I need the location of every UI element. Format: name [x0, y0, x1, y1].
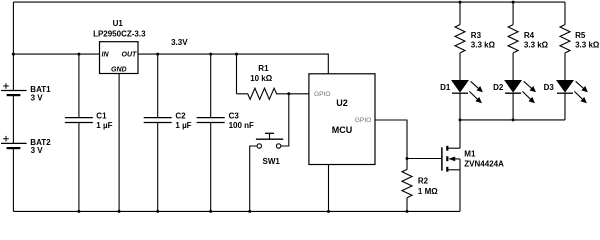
node MCU GND bottom [327, 210, 330, 213]
node R1/SW1/GPIO junction [287, 92, 290, 95]
svg-text:R1: R1 [258, 64, 269, 73]
wire bottom ground rail [13, 210, 460, 212]
wire left supply column [12, 2, 14, 90]
svg-text:3.3 kΩ: 3.3 kΩ [471, 40, 496, 49]
svg-text:R3: R3 [471, 31, 482, 40]
svg-text:3.3 kΩ: 3.3 kΩ [575, 40, 600, 49]
svg-text:SW1: SW1 [263, 157, 281, 166]
node C1 top [77, 53, 80, 56]
svg-text:LP2950CZ-3.3: LP2950CZ-3.3 [93, 30, 146, 39]
svg-text:D3: D3 [544, 83, 555, 92]
capacitor C1 [65, 54, 93, 211]
resistor R3 [455, 2, 465, 80]
node C2 bottom [156, 210, 159, 213]
node C2 top [156, 53, 159, 56]
node U1 GND bottom [118, 210, 121, 213]
svg-text:M1: M1 [464, 150, 476, 159]
wire MCU GPIO to gate node [375, 120, 407, 159]
resistor R5 [560, 2, 570, 80]
resistor R2 [402, 159, 412, 212]
svg-text:GPIO: GPIO [314, 91, 331, 98]
MCU U2 body [309, 74, 375, 165]
svg-text:GND: GND [111, 66, 127, 73]
wire top rail [13, 1, 565, 3]
svg-text:OUT: OUT [122, 51, 138, 58]
svg-text:D2: D2 [493, 83, 504, 92]
svg-text:10 kΩ: 10 kΩ [250, 74, 273, 83]
resistor R1 [237, 54, 289, 99]
svg-text:ZVN4424A: ZVN4424A [464, 159, 504, 168]
wire M1 drain to LED rail [459, 120, 461, 148]
svg-text:C1: C1 [96, 112, 107, 121]
svg-text:GPIO: GPIO [355, 117, 372, 124]
svg-text:U2: U2 [336, 98, 348, 108]
svg-text:3 V: 3 V [31, 146, 44, 155]
wire M1 source to ground [459, 170, 461, 212]
wire LED cathode rail [460, 119, 565, 121]
node battery/IN junction [12, 53, 15, 56]
node gate junction [406, 157, 409, 160]
LED D2 [505, 81, 536, 120]
node R2 bottom [406, 210, 409, 213]
wire U1 OUT 3.3V rail [138, 54, 328, 74]
LED D3 [557, 81, 588, 120]
pushbutton SW1 [250, 133, 284, 211]
node D2 cathode [512, 118, 515, 121]
svg-text:MCU: MCU [332, 125, 353, 135]
node R3 top [459, 1, 462, 4]
capacitor C2 [144, 54, 172, 211]
node SW1 bottom [248, 210, 251, 213]
svg-text:R4: R4 [524, 31, 535, 40]
node C3 top [209, 53, 212, 56]
svg-text:C2: C2 [175, 112, 186, 121]
node D1 cathode [459, 118, 462, 121]
wire between batteries [12, 95, 14, 143]
battery BAT2 [1, 136, 27, 148]
capacitor C3 [197, 54, 225, 211]
svg-text:U1: U1 [113, 19, 124, 28]
wire gate node to M1 gate [407, 158, 441, 160]
svg-text:R5: R5 [575, 31, 586, 40]
node R1 top [235, 53, 238, 56]
svg-text:IN: IN [102, 51, 110, 58]
svg-text:C3: C3 [229, 112, 240, 121]
battery BAT1 [1, 83, 27, 95]
svg-text:1 µF: 1 µF [96, 121, 112, 130]
transistor M1 [442, 146, 460, 172]
svg-text:100 nF: 100 nF [229, 121, 254, 130]
regulator U1 body [100, 42, 139, 74]
svg-text:1 µF: 1 µF [175, 121, 191, 130]
resistor R4 [508, 2, 518, 80]
svg-text:3.3 kΩ: 3.3 kΩ [524, 40, 549, 49]
wire R1 to MCU GPIO [289, 93, 309, 95]
svg-text:3.3V: 3.3V [171, 38, 188, 47]
wire U1 GND to ground [118, 74, 120, 212]
node R4 top [512, 1, 515, 4]
node C1 bottom [77, 210, 80, 213]
LED D1 [452, 81, 483, 120]
svg-text:D1: D1 [440, 83, 451, 92]
svg-text:3 V: 3 V [31, 93, 44, 102]
svg-text:R2: R2 [418, 177, 429, 186]
wire MCU GND [328, 165, 330, 212]
wire BAT2 to ground rail [12, 148, 14, 211]
wire battery to U1 IN [13, 53, 99, 55]
svg-text:1 MΩ: 1 MΩ [418, 187, 438, 196]
node C3 bottom [209, 210, 212, 213]
wire junction to SW1 [281, 94, 289, 146]
